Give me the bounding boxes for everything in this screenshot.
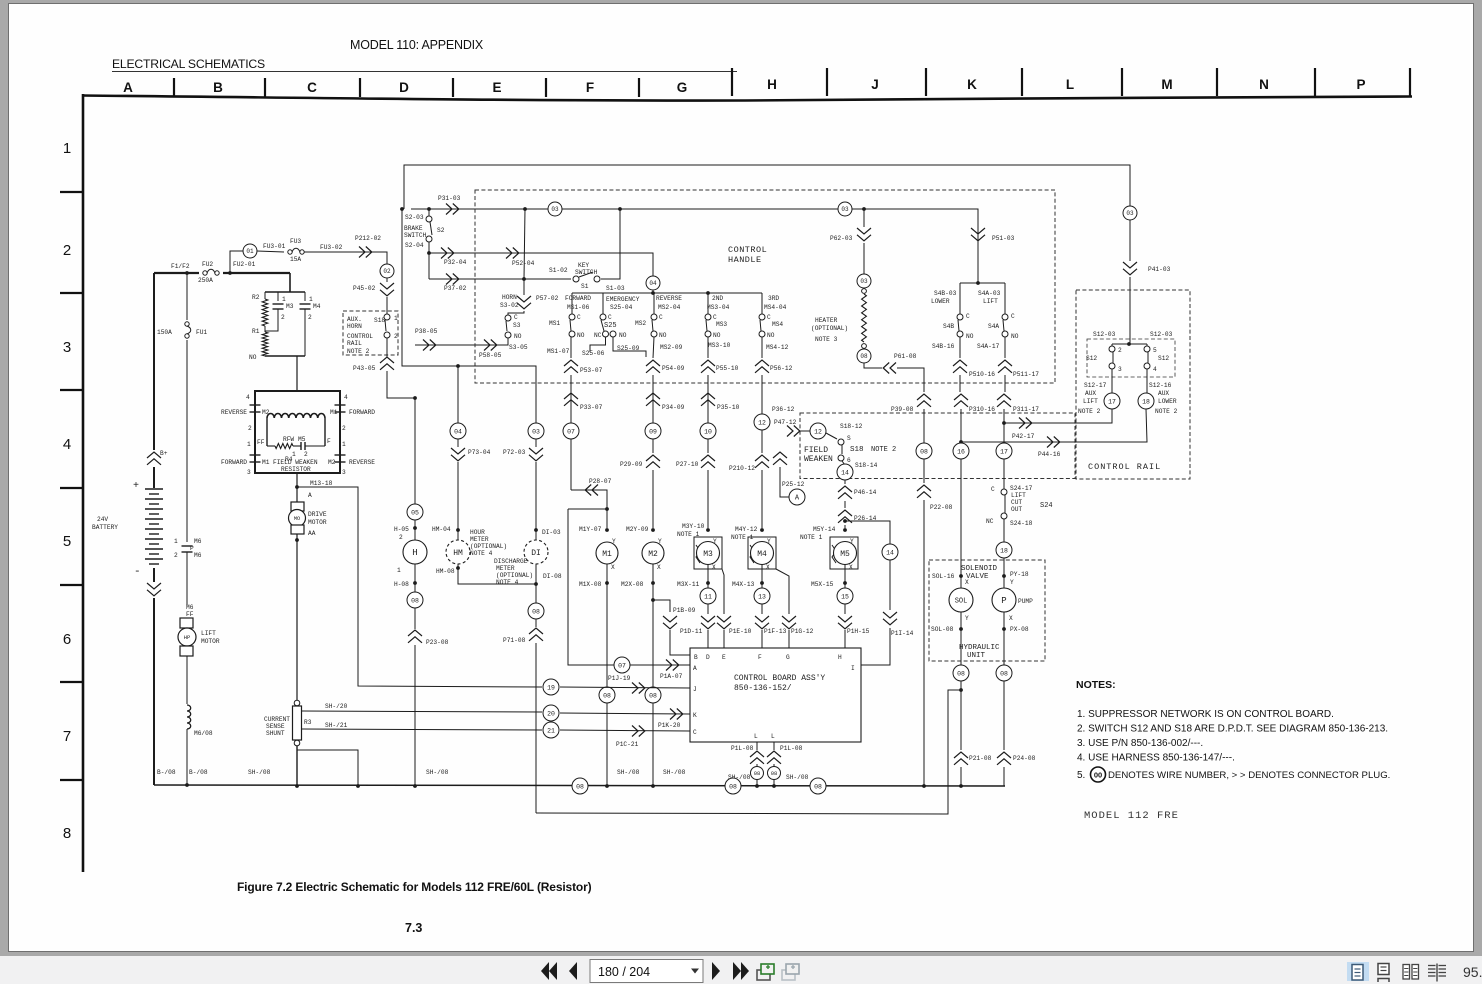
svg-text:CONTROL: CONTROL (728, 245, 767, 255)
svg-text:21: 21 (547, 727, 555, 734)
svg-text:02: 02 (383, 268, 391, 275)
lift motor HP (178, 604, 220, 704)
svg-text:4: 4 (344, 394, 348, 401)
svg-text:C: C (713, 314, 717, 321)
contactor coil M3 with suppressor (677, 523, 722, 589)
connector P73-04 (432, 439, 491, 540)
svg-text:3: 3 (342, 469, 346, 476)
svg-text:5: 5 (63, 533, 71, 550)
svg-text:SH-/20: SH-/20 (325, 703, 348, 710)
svg-text:P38-05: P38-05 (415, 328, 438, 335)
svg-text:P: P (1356, 77, 1365, 92)
wire FU2-01 (230, 251, 256, 273)
svg-text:P1F-13: P1F-13 (764, 628, 787, 635)
svg-text:07: 07 (618, 662, 626, 669)
svg-text:05: 05 (411, 509, 419, 516)
connector P25-12 (773, 452, 805, 497)
svg-text:B-/08: B-/08 (189, 769, 208, 776)
svg-text:3: 3 (1118, 366, 1122, 373)
svg-text:08: 08 (860, 353, 868, 360)
svg-text:P1A-07: P1A-07 (660, 673, 683, 680)
svg-text:LOWER: LOWER (931, 298, 950, 305)
contactor coil M5 with suppressor (800, 526, 858, 589)
connector P1G-12 (776, 569, 814, 648)
notes text (1076, 679, 1390, 822)
switch MS1 forward (547, 293, 591, 355)
wire number 11 (700, 588, 716, 604)
svg-text:C: C (307, 80, 317, 95)
svg-text:Figure 7.2 Electric Schematic: Figure 7.2 Electric Schematic for Models… (237, 880, 592, 894)
svg-text:2: 2 (281, 314, 285, 321)
svg-text:08: 08 (649, 692, 657, 699)
wire ground bus 08 (154, 769, 1005, 788)
svg-text:-: - (134, 566, 141, 578)
svg-text:P61-08: P61-08 (894, 353, 917, 360)
svg-text:2: 2 (174, 552, 178, 559)
svg-text:1: 1 (397, 567, 401, 574)
contactor coil M4 with suppressor (731, 526, 776, 589)
svg-text:FIELD WEAKEN: FIELD WEAKEN (273, 459, 318, 466)
wire number 04 (450, 423, 466, 439)
svg-text:P34-09: P34-09 (662, 404, 685, 411)
connector P1A-07 (660, 660, 683, 681)
svg-text:NOTE 3: NOTE 3 (815, 336, 838, 343)
wire number 08 (599, 687, 615, 703)
svg-text:FU2: FU2 (202, 261, 213, 268)
svg-text:P1D-11: P1D-11 (680, 628, 703, 635)
svg-text:X: X (849, 564, 853, 571)
connector P24-08 (997, 681, 1036, 786)
svg-text:MS1: MS1 (549, 320, 560, 327)
svg-text:1: 1 (342, 441, 346, 448)
svg-text:P22-08: P22-08 (930, 504, 953, 511)
svg-text:MS3-04: MS3-04 (707, 304, 730, 311)
wire SH-/20 (302, 703, 543, 712)
svg-text:S1-02: S1-02 (549, 267, 568, 274)
svg-text:CONTROL BOARD ASS'Y: CONTROL BOARD ASS'Y (734, 674, 825, 683)
connector P1D-11 (680, 604, 715, 648)
connector P28-07 (568, 439, 612, 663)
svg-text:S12-17: S12-17 (1084, 382, 1107, 389)
svg-text:FU3-02: FU3-02 (320, 244, 343, 251)
svg-text:250A: 250A (198, 277, 213, 284)
svg-text:S2-04: S2-04 (405, 242, 424, 249)
key switch S1 (429, 209, 625, 292)
battery 24V (92, 273, 168, 785)
svg-text:PY-18: PY-18 (1010, 571, 1029, 578)
connector P35-10 (701, 393, 740, 411)
svg-text:HOUR: HOUR (470, 529, 485, 536)
svg-text:00: 00 (1094, 771, 1102, 780)
wire lower return 08 (536, 690, 961, 814)
svg-text:SOL: SOL (955, 598, 968, 606)
svg-text:P51-03: P51-03 (992, 235, 1015, 242)
svg-text:08: 08 (532, 608, 540, 615)
svg-text:Y: Y (965, 615, 969, 622)
svg-text:SH-/08: SH-/08 (248, 769, 271, 776)
switch MS2 reverse (635, 293, 683, 351)
wire S1 feed (524, 209, 525, 279)
switch MS3 2nd (705, 293, 731, 349)
svg-text:C: C (767, 314, 771, 321)
wire net 19 drive motor armature (358, 685, 690, 688)
svg-text:MS3-10: MS3-10 (708, 342, 731, 349)
svg-text:DISCHARGE: DISCHARGE (494, 558, 528, 565)
svg-text:NC: NC (986, 518, 994, 525)
svg-text:P35-10: P35-10 (717, 404, 740, 411)
svg-text:SHUNT: SHUNT (266, 730, 285, 737)
connector P55-10 (701, 337, 739, 424)
svg-text:VALVE: VALVE (966, 573, 989, 581)
svg-text:S24-17: S24-17 (1010, 485, 1033, 492)
svg-text:LIFT: LIFT (983, 298, 998, 305)
svg-text:2: 2 (399, 534, 403, 541)
connector P46-14 (838, 480, 877, 508)
svg-text:AUX: AUX (1158, 390, 1169, 397)
wire number 08 (996, 665, 1012, 681)
svg-text:HANDLE: HANDLE (728, 255, 762, 265)
contactor coil M2 (621, 526, 664, 786)
svg-text:NOTE 2: NOTE 2 (1078, 408, 1101, 415)
connector P1J-19 (608, 675, 645, 694)
svg-text:M1: M1 (602, 550, 612, 559)
svg-text:C: C (659, 314, 663, 321)
connector P311-17 (997, 394, 1039, 443)
connector P22-08 (917, 459, 953, 786)
wire number 08 (407, 592, 423, 629)
svg-text:P31-03: P31-03 (438, 195, 461, 202)
svg-text:M5X-15: M5X-15 (811, 581, 834, 588)
svg-text:L: L (1066, 77, 1074, 92)
svg-text:08: 08 (603, 692, 611, 699)
svg-text:DRIVE: DRIVE (308, 511, 327, 518)
connector P31-03 (438, 195, 461, 215)
connector P53-07 (564, 337, 603, 424)
wire HM DI feed (400, 207, 536, 424)
connector P27-10 (676, 439, 715, 528)
svg-text:P62-03: P62-03 (830, 235, 853, 242)
wire number 08 (528, 603, 544, 627)
svg-text:MS2: MS2 (635, 320, 646, 327)
svg-text:MS1-07: MS1-07 (547, 348, 570, 355)
svg-text:NOTE 1: NOTE 1 (800, 534, 823, 541)
svg-text:N: N (1259, 77, 1269, 92)
svg-text:L: L (771, 733, 775, 740)
svg-text:18: 18 (1142, 398, 1150, 405)
svg-text:RFW: RFW (283, 436, 294, 443)
svg-text:MO: MO (294, 516, 300, 522)
connector P310-16 (954, 394, 995, 444)
svg-text:M4Y-12: M4Y-12 (735, 526, 758, 533)
svg-text:S18-12: S18-12 (840, 423, 863, 430)
svg-text:S1-03: S1-03 (606, 285, 625, 292)
svg-text:NOTES:: NOTES: (1076, 679, 1116, 691)
switch S4A lift (977, 283, 1019, 358)
svg-text:M: M (1161, 77, 1172, 92)
switch S24 lift cut out (986, 459, 1053, 542)
svg-text:24V: 24V (97, 516, 108, 523)
svg-text:FORWARD: FORWARD (221, 459, 247, 466)
svg-text:4: 4 (1153, 366, 1157, 373)
svg-text:KEY: KEY (578, 262, 589, 269)
control rail enclosure (1076, 290, 1190, 479)
svg-text:AA: AA (308, 530, 316, 537)
connector P23-08 (408, 630, 449, 786)
brake switch S2 (404, 209, 445, 279)
svg-text:AUX: AUX (1085, 390, 1096, 397)
wire S3 to P58-05 P38-05 (415, 328, 508, 359)
svg-text:DENOTES WIRE NUMBER, > > DENOT: DENOTES WIRE NUMBER, > > DENOTES CONNECT… (1108, 770, 1390, 781)
svg-text:FF: FF (186, 611, 194, 618)
svg-text:C: C (991, 486, 995, 493)
svg-text:LIFT: LIFT (201, 630, 216, 637)
svg-text:M4: M4 (313, 303, 321, 310)
svg-text:P53-07: P53-07 (580, 367, 603, 374)
svg-text:04: 04 (649, 280, 657, 287)
svg-text:X: X (1009, 615, 1013, 622)
svg-text:1: 1 (174, 538, 178, 545)
svg-text:MOTOR: MOTOR (308, 519, 327, 526)
svg-text:MS3: MS3 (716, 321, 727, 328)
svg-text:3RD: 3RD (768, 295, 779, 302)
field weaken switch S18 (774, 413, 1075, 479)
svg-text:P1L-08: P1L-08 (780, 745, 803, 752)
svg-text:2. SWITCH S12 AND S18 ARE D.P.: 2. SWITCH S12 AND S18 ARE D.P.D.T. SEE D… (1077, 724, 1388, 735)
svg-text:ELECTRICAL SCHEMATICS: ELECTRICAL SCHEMATICS (112, 57, 265, 71)
svg-text:S4A-17: S4A-17 (977, 343, 1000, 350)
svg-text:2: 2 (63, 242, 71, 259)
svg-text:C: C (608, 314, 612, 321)
svg-text:B: B (213, 80, 223, 95)
svg-text:METER: METER (496, 565, 515, 572)
svg-text:5.: 5. (1077, 770, 1085, 781)
svg-text:R2: R2 (252, 294, 260, 301)
svg-text:FU3-01: FU3-01 (263, 243, 286, 250)
svg-text:F: F (327, 438, 331, 445)
svg-text:M2Y-09: M2Y-09 (626, 526, 649, 533)
wire number 21 (543, 722, 690, 738)
svg-text:P42-17: P42-17 (1012, 433, 1035, 440)
connector P42-17 (1012, 418, 1035, 441)
svg-text:HYDRAULIC: HYDRAULIC (959, 644, 1000, 652)
node 17 aux lift (1004, 369, 1120, 423)
svg-text:BATTERY: BATTERY (92, 524, 118, 531)
svg-text:3: 3 (247, 469, 251, 476)
svg-text:P37-02: P37-02 (444, 285, 467, 292)
svg-text:P28-07: P28-07 (589, 478, 612, 485)
svg-text:S3-05: S3-05 (509, 344, 528, 351)
svg-text:M4X-13: M4X-13 (732, 581, 755, 588)
svg-text:S4B: S4B (943, 323, 954, 330)
svg-text:14: 14 (886, 549, 894, 556)
wire number 14 column (882, 544, 898, 610)
svg-text:NO: NO (713, 332, 721, 339)
connector P62-03 (830, 209, 871, 274)
svg-text:8: 8 (63, 825, 71, 842)
wire number 08 (916, 443, 932, 459)
svg-text:M1: M1 (330, 409, 338, 416)
svg-text:NO: NO (767, 332, 775, 339)
svg-text:FU1: FU1 (196, 329, 207, 336)
svg-text:M2: M2 (328, 459, 336, 466)
svg-text:C: C (1011, 313, 1015, 320)
hour meter H (394, 540, 427, 592)
svg-text:P21-08: P21-08 (969, 755, 992, 762)
svg-text:(OPTIONAL): (OPTIONAL) (470, 543, 507, 550)
svg-text:S2-03: S2-03 (405, 214, 424, 221)
svg-text:MS2-04: MS2-04 (658, 304, 681, 311)
switch S25 emergency (582, 293, 646, 357)
svg-text:P: P (1001, 596, 1006, 606)
svg-text:M6: M6 (194, 552, 202, 559)
svg-text:S25-06: S25-06 (582, 350, 605, 357)
svg-text:SENSE: SENSE (266, 723, 285, 730)
svg-text:12: 12 (814, 428, 822, 435)
connector P34-09 (646, 393, 685, 411)
svg-text:2: 2 (308, 314, 312, 321)
wire number 08 (810, 778, 826, 794)
connector P1H-15 (838, 604, 870, 648)
switch S12 dpdt (1084, 331, 1175, 389)
svg-text:08: 08 (754, 770, 761, 777)
connector P41-03 (1123, 220, 1171, 344)
svg-text:EMERGENCY: EMERGENCY (606, 296, 640, 303)
svg-text:P72-03: P72-03 (503, 449, 526, 456)
svg-text:03: 03 (532, 428, 540, 435)
svg-text:J: J (693, 686, 697, 693)
svg-text:H-08: H-08 (394, 581, 409, 588)
svg-text:UNIT: UNIT (967, 652, 986, 660)
svg-text:NOTE 4: NOTE 4 (496, 579, 519, 586)
wire number 19 (543, 679, 559, 695)
svg-text:M2: M2 (262, 409, 270, 416)
svg-text:S25-09: S25-09 (617, 345, 640, 352)
svg-text:SH-/08: SH-/08 (617, 769, 640, 776)
svg-text:H: H (767, 77, 777, 92)
svg-text:S1: S1 (581, 283, 589, 290)
svg-text:P: P (190, 545, 194, 552)
wire number 03 (548, 202, 562, 216)
svg-text:1: 1 (282, 296, 286, 303)
svg-text:15A: 15A (290, 256, 301, 263)
node A (789, 489, 805, 505)
svg-text:P36-12: P36-12 (772, 406, 795, 413)
svg-text:P41-03: P41-03 (1148, 266, 1171, 273)
svg-text:LIFT: LIFT (1011, 492, 1026, 499)
connector P1C-21 (616, 726, 645, 749)
svg-text:P311-17: P311-17 (1013, 406, 1039, 413)
svg-text:P1K-20: P1K-20 (658, 722, 681, 729)
svg-text:SWITCH: SWITCH (404, 232, 427, 239)
svg-text:08: 08 (920, 448, 928, 455)
svg-text:1: 1 (292, 451, 296, 458)
svg-text:B: B (694, 654, 698, 661)
svg-text:2: 2 (248, 425, 252, 432)
connector P44-16 (1038, 437, 1061, 459)
wire contact bus net 04 (572, 291, 762, 295)
svg-text:H: H (412, 548, 417, 558)
svg-text:19: 19 (547, 684, 555, 691)
svg-text:H-05: H-05 (394, 526, 409, 533)
wire number 03 (1123, 206, 1137, 220)
svg-text:M6: M6 (194, 538, 202, 545)
horn switch S3 (500, 279, 559, 351)
svg-text:P1B-09: P1B-09 (673, 607, 696, 614)
connector P1E-10 (717, 569, 752, 648)
svg-text:16: 16 (957, 448, 965, 455)
svg-text:NO: NO (514, 333, 522, 340)
wire number 08 (768, 767, 781, 780)
svg-text:REVERSE: REVERSE (656, 295, 682, 302)
svg-text:P73-04: P73-04 (468, 449, 491, 456)
switch MS4 3rd (759, 293, 789, 351)
svg-text:08: 08 (771, 770, 778, 777)
svg-text:RESISTOR: RESISTOR (281, 466, 311, 473)
svg-text:D: D (706, 654, 710, 661)
svg-text:M5: M5 (298, 436, 306, 443)
wire top border net 03 (404, 165, 1130, 283)
svg-text:CONTROL: CONTROL (347, 333, 373, 340)
svg-text:M1: M1 (262, 459, 270, 466)
svg-text:METER: METER (470, 536, 489, 543)
svg-text:95.: 95. (1463, 964, 1482, 980)
wire number 07 (563, 423, 579, 439)
svg-text:08: 08 (1000, 670, 1008, 677)
drive motor MO (289, 473, 359, 701)
svg-text:NC: NC (594, 332, 602, 339)
switch S18 aux horn (343, 311, 398, 355)
svg-text:P1I-14: P1I-14 (891, 630, 914, 637)
contactor coil M1 (579, 509, 618, 786)
figure caption (237, 880, 592, 935)
svg-text:FIELD: FIELD (804, 446, 828, 455)
wire number 08 (953, 665, 969, 681)
svg-text:P1H-15: P1H-15 (847, 628, 870, 635)
connector P1F-13 (755, 604, 787, 648)
svg-text:AUX.: AUX. (347, 316, 362, 323)
svg-text:09: 09 (649, 428, 657, 435)
pump motor P (992, 571, 1033, 666)
connector P71-08 (503, 628, 543, 813)
svg-text:S4A: S4A (988, 323, 999, 330)
svg-text:X: X (657, 564, 661, 571)
svg-text:1: 1 (309, 296, 313, 303)
svg-text:2: 2 (394, 333, 398, 340)
wire number 09 (645, 423, 661, 439)
svg-text:A: A (123, 80, 133, 95)
svg-text:M6: M6 (186, 604, 194, 611)
svg-text:S25: S25 (604, 322, 617, 330)
svg-text:13: 13 (758, 593, 766, 600)
svg-text:03: 03 (551, 206, 559, 213)
heater optional resistor (811, 289, 866, 349)
connector P29-09 (620, 439, 660, 528)
svg-text:E: E (722, 654, 726, 661)
svg-text:P71-08: P71-08 (503, 637, 526, 644)
svg-text:X: X (766, 564, 770, 571)
wire number 15 (837, 588, 853, 604)
svg-text:SH-/08: SH-/08 (786, 774, 809, 781)
svg-text:A: A (693, 665, 697, 672)
svg-text:L: L (754, 733, 758, 740)
svg-text:NO: NO (966, 333, 974, 340)
svg-text:P47-12: P47-12 (774, 419, 797, 426)
svg-text:(OPTIONAL): (OPTIONAL) (496, 572, 533, 579)
solenoid valve hydraulic unit enclosure (929, 560, 1045, 661)
connector P21-08 (954, 681, 992, 786)
wire number 14 (837, 464, 853, 480)
svg-text:DI: DI (531, 549, 541, 558)
